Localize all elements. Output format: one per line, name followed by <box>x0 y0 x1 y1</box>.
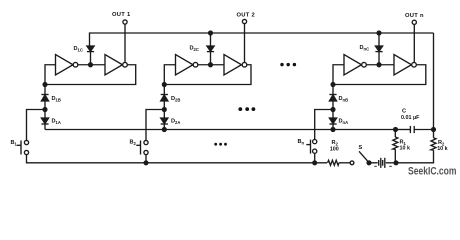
inverter U2A section2 <box>176 55 194 76</box>
svg-text:D1A: D1A <box>52 118 61 125</box>
diode DnB <box>329 95 336 110</box>
node C right / R2 top / right bus <box>432 128 436 132</box>
svg-text:100: 100 <box>330 147 339 153</box>
wire B2 to bottom bus <box>145 155 147 163</box>
pushbutton B1 <box>17 140 29 154</box>
svg-text:DnB: DnB <box>339 96 349 103</box>
wire OUTn lead <box>413 24 415 62</box>
svg-text:B1: B1 <box>11 140 18 147</box>
svg-text:Bn: Bn <box>298 139 305 146</box>
svg-text:D1C: D1C <box>74 46 83 53</box>
wire U2A out to node A2 <box>198 64 224 66</box>
diode D2A <box>161 110 168 130</box>
diode DnC <box>375 33 382 63</box>
wire Bn to bottom bus <box>314 153 316 163</box>
wire OUT1 lead <box>124 24 126 62</box>
svg-text:0.01 µF: 0.01 µF <box>401 115 420 121</box>
node Bn bottom junction <box>313 161 317 165</box>
wire U2 feedback loop <box>164 65 251 85</box>
wire U2A input <box>164 65 175 85</box>
wire to D1B <box>44 85 46 95</box>
wire R2 top lead <box>433 130 435 138</box>
wire Dn junction to Bn <box>315 110 333 141</box>
node B2 bottom junction <box>144 161 148 165</box>
diode D2C <box>207 33 214 63</box>
inverter U1A section1 <box>56 55 74 76</box>
terminal OUT n <box>412 20 416 24</box>
svg-text:OUT 1: OUT 1 <box>112 12 131 18</box>
terminal OUT 1 <box>123 20 127 24</box>
svg-text:DnC: DnC <box>360 45 370 52</box>
wire to DnB <box>332 85 334 95</box>
switch S blade <box>359 151 369 162</box>
svg-text:D2C: D2C <box>190 46 199 53</box>
diode D2B <box>161 95 168 110</box>
node Dn junction <box>331 108 335 112</box>
wire R2-100 to switch terminal <box>339 162 350 164</box>
wire OUT2 lead <box>244 24 246 63</box>
wire bottom supply bus y=162.8 from B1 to R2-100 <box>27 155 328 163</box>
node feedback junction section2 <box>162 83 166 87</box>
terminal switch S open contact <box>350 161 354 165</box>
ellipsis between sections mid level <box>280 63 296 66</box>
node D2C top on bus <box>209 31 213 35</box>
node A2 junction between inverters section2 <box>209 63 213 67</box>
capacitor C plates <box>396 126 434 133</box>
pushbutton Bn <box>306 140 317 154</box>
wire right bus vertical x=433.5 <box>433 33 435 130</box>
node DnA bottom on bus <box>331 128 335 132</box>
wire U1A input <box>45 65 56 85</box>
svg-text:S: S <box>359 145 363 151</box>
node R1 top / C left <box>394 128 398 132</box>
node feedback junction section1 <box>43 83 47 87</box>
wire battery right lead <box>386 162 396 164</box>
resistor R1 vertical <box>393 137 398 149</box>
svg-text:10 k: 10 k <box>437 146 448 152</box>
diode D1A <box>41 110 48 130</box>
svg-text:SeekIC.com: SeekIC.com <box>408 166 457 178</box>
wire diode bottom bus y=129.5 from D1A to R1 top <box>45 129 396 131</box>
inverter UnA section n <box>344 55 362 76</box>
svg-text:OUT n: OUT n <box>405 13 424 19</box>
inverter UnB section n <box>394 55 412 76</box>
node D1 junction <box>43 108 47 112</box>
node D2 junction <box>162 108 166 112</box>
svg-text:B2: B2 <box>130 140 137 147</box>
wire D1 junction to B1 <box>27 110 46 141</box>
terminal OUT 2 <box>242 19 246 23</box>
wire battery left lead <box>369 162 378 164</box>
wire U1A out to node A1 <box>78 64 105 66</box>
svg-text:OUT 2: OUT 2 <box>237 13 256 19</box>
pushbutton B2 <box>136 140 148 154</box>
wire D2 junction to B2 <box>146 110 164 141</box>
node feedback junction section n <box>331 83 335 87</box>
svg-text:10 k: 10 k <box>400 146 411 152</box>
diode D1B <box>41 95 48 110</box>
wire top supply bus y=33 from D1C top to right bus <box>90 33 434 46</box>
svg-text:DnA: DnA <box>339 118 349 125</box>
wire U1 feedback loop <box>45 65 136 85</box>
node DnC top on bus <box>377 31 381 35</box>
wire to D2B <box>163 85 165 95</box>
wire UnA out to node An <box>366 64 394 66</box>
node An junction between inverters section n <box>377 63 381 67</box>
inverter U2B section2 <box>224 55 242 76</box>
battery cells <box>379 158 385 168</box>
ellipsis between sections bottom level <box>214 143 227 146</box>
node battery right / R1 bottom <box>394 161 398 165</box>
svg-text:D1B: D1B <box>52 96 61 103</box>
node A1 junction between inverters section1 <box>89 63 93 67</box>
ellipsis between sections feedback level <box>238 107 255 111</box>
resistor R2 10k vertical <box>431 138 436 150</box>
node D2A bottom on bus <box>162 128 166 132</box>
resistor R2 100 horizontal <box>328 160 339 165</box>
node switch pivot / battery left <box>367 161 371 165</box>
inverter U1B section1 <box>105 55 123 76</box>
svg-text:D2A: D2A <box>171 118 180 125</box>
wire Un feedback loop <box>333 65 426 85</box>
wire R1 bottom lead <box>394 149 396 163</box>
svg-text:C: C <box>402 109 406 115</box>
wire R1 top lead <box>394 130 396 138</box>
diode D1C <box>87 46 94 62</box>
wire bottom bus from battery right dot to R2 bottom <box>396 150 434 163</box>
svg-text:D2B: D2B <box>171 96 180 103</box>
wire UnA input <box>333 65 344 85</box>
battery polarity marks <box>374 165 377 167</box>
diode DnA <box>329 110 336 130</box>
